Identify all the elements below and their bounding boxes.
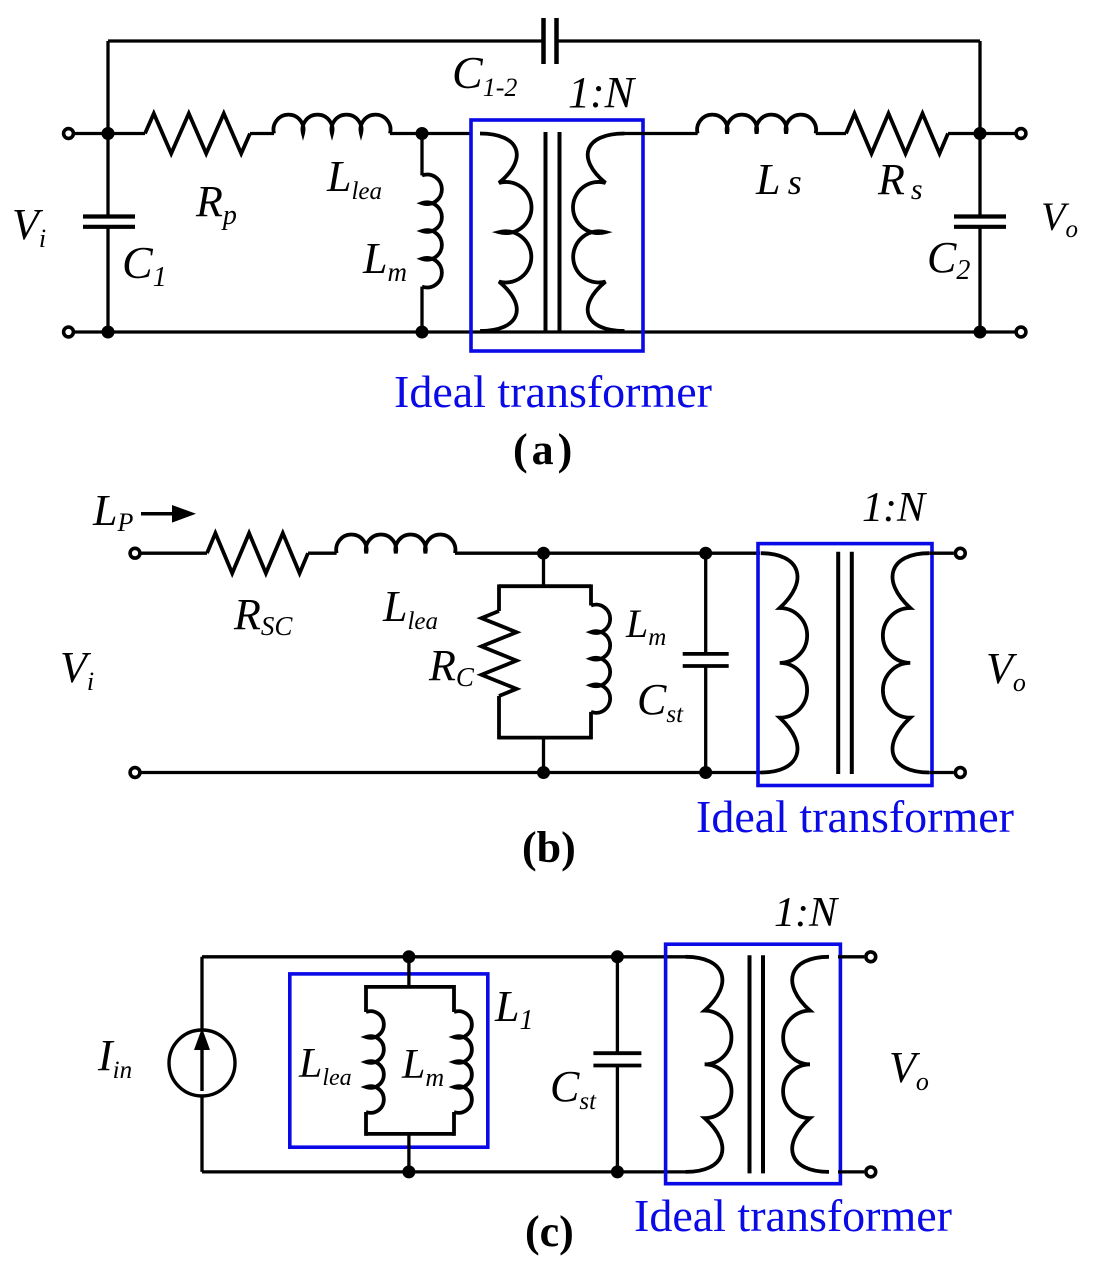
ideal transformer (b) secondary winding bbox=[883, 553, 929, 772]
svg-text:Rp: Rp bbox=[195, 177, 237, 231]
wire: (a) C2 lower stub bbox=[978, 227, 981, 332]
wire: (a) bottom rail bbox=[108, 330, 980, 333]
svg-text:Ideal transformer: Ideal transformer bbox=[696, 791, 1014, 842]
svg-text:C1-2: C1-2 bbox=[452, 47, 517, 102]
terminal: (a) input bottom bbox=[64, 327, 74, 337]
ideal transformer (a) core line 2 bbox=[558, 132, 562, 333]
ideal transformer (c) core line 2 bbox=[761, 955, 765, 1173]
wire: (b) Lm upper lead (b) bbox=[589, 584, 593, 605]
svg-text:Lm: Lm bbox=[401, 1042, 444, 1092]
svg-text:RSC: RSC bbox=[233, 590, 293, 641]
wire: (b) Rsc to Llea bbox=[308, 552, 337, 555]
inductor Llea (b) bbox=[336, 535, 455, 554]
svg-text:L1: L1 bbox=[494, 982, 533, 1036]
resistor Rc bbox=[482, 611, 517, 696]
resistor Rs bbox=[846, 114, 948, 154]
wire: (c) tank bottom stub bbox=[407, 1134, 410, 1172]
resistor Rp bbox=[145, 114, 250, 154]
svg-text:Lm: Lm bbox=[362, 234, 407, 287]
capacitor Cst (b) bbox=[683, 652, 729, 656]
terminal: (a) out bottom bbox=[1016, 327, 1026, 337]
wire: (a) Lm lower stub bbox=[420, 287, 423, 332]
node: (c) bottom node 2 bbox=[611, 1165, 624, 1178]
inductor Lm (b) bbox=[591, 605, 610, 713]
wire: (c) Llea lower lead bbox=[364, 1112, 368, 1136]
svg-text:Vo: Vo bbox=[1041, 194, 1078, 243]
svg-text:1:N: 1:N bbox=[862, 485, 927, 531]
svg-text:Iin: Iin bbox=[97, 1031, 132, 1084]
terminal: (b) input bottom bbox=[130, 768, 140, 778]
svg-text:Cst: Cst bbox=[550, 1062, 597, 1115]
terminal: (b) input top bbox=[130, 548, 140, 558]
wire: (a) Rp to Llea bbox=[250, 132, 274, 135]
svg-text:Ideal transformer: Ideal transformer bbox=[634, 1190, 952, 1241]
svg-text:Llea: Llea bbox=[298, 1041, 352, 1091]
svg-text:1:N: 1:N bbox=[774, 890, 839, 936]
svg-text:Lm: Lm bbox=[625, 601, 666, 651]
wire: (a) out bottom lead bbox=[980, 330, 1021, 333]
ideal transformer (a) core line 1 bbox=[544, 132, 548, 333]
inductor Llea (a) bbox=[274, 115, 391, 134]
wire: (b) tank top bus bbox=[499, 584, 591, 588]
wire: (c) out bottom lead bbox=[838, 1170, 864, 1173]
wire: (b) Llea to nodes bbox=[455, 552, 760, 555]
wire: (b) tank bottom stub bbox=[542, 738, 545, 773]
ideal transformer (a) secondary winding bbox=[573, 134, 625, 332]
terminal: (b) out top bbox=[955, 548, 965, 558]
wire: (a) right riser from bypass bbox=[978, 41, 981, 134]
blue box L1 bbox=[290, 974, 488, 1147]
capacitor C2 bbox=[954, 214, 1006, 218]
capacitor Cst (c) bbox=[593, 1051, 641, 1055]
ideal transformer (c) primary winding bbox=[686, 957, 732, 1172]
wire: (b) Cst upper stub bbox=[704, 553, 707, 654]
wire: (a) input top lead bbox=[69, 132, 109, 135]
wire: (c) source top lead bbox=[200, 957, 203, 1030]
wire: (c) Cst lower stub bbox=[616, 1066, 619, 1172]
wire: (a) out top lead bbox=[980, 132, 1021, 135]
wire: (b) Rc lower lead bbox=[497, 696, 501, 739]
wire: (a) top rail to Rp bbox=[108, 132, 145, 135]
svg-text:C2: C2 bbox=[927, 233, 970, 286]
resistor Rsc bbox=[207, 533, 308, 573]
ideal transformer (b) core line 1 bbox=[836, 552, 840, 774]
svg-text:(a): (a) bbox=[513, 425, 576, 474]
wire: (b) Rc upper lead bbox=[497, 584, 501, 611]
node: (b) top node 2 bbox=[699, 547, 712, 560]
wire: (c) Lm upper lead bbox=[452, 985, 456, 1012]
svg-text:LP: LP bbox=[92, 486, 133, 537]
ideal transformer (b) core line 2 bbox=[850, 552, 854, 774]
ideal transformer (c) blue box bbox=[666, 944, 841, 1183]
node: (b) bottom node 1 bbox=[537, 766, 550, 779]
wire: (b) out top lead bbox=[930, 552, 954, 555]
wire: (c) tank top bus bbox=[366, 985, 454, 989]
node: (b) top node 1 bbox=[537, 547, 550, 560]
current source arrow shaft bbox=[200, 1046, 203, 1091]
wire: (c) tank top stub bbox=[407, 957, 410, 987]
wire: (a) Rs to out node bbox=[948, 132, 980, 135]
wire: (a) Ls to Rs bbox=[816, 132, 846, 135]
svg-text:1:N: 1:N bbox=[568, 68, 637, 117]
svg-text:Vo: Vo bbox=[889, 1043, 929, 1096]
wire: (b) out bottom lead bbox=[930, 771, 954, 774]
wire: (a) C1 upper stub bbox=[106, 134, 109, 217]
wire: (b) bottom rail bbox=[135, 771, 762, 774]
terminal: (a) input top bbox=[64, 129, 74, 139]
svg-text:Cst: Cst bbox=[637, 675, 684, 728]
terminal: (a) out top bbox=[1016, 129, 1026, 139]
svg-text:Vo: Vo bbox=[986, 644, 1026, 697]
wire: (c) top rail bbox=[202, 955, 688, 958]
wire: (c) out top lead bbox=[838, 955, 864, 958]
inductor Lm (a) bbox=[422, 174, 442, 287]
capacitor C1 bbox=[83, 214, 135, 218]
capacitor C1-2 bbox=[541, 18, 546, 64]
terminal: (c) out top bbox=[866, 952, 876, 962]
wire: (a) secondary to Ls bbox=[625, 132, 698, 135]
wire: (b) tank top stub bbox=[542, 553, 545, 586]
svg-text:Vi: Vi bbox=[12, 200, 46, 253]
node: (c) top node 2 bbox=[611, 950, 624, 963]
wire: (c) tank bottom bus bbox=[366, 1132, 454, 1136]
svg-text:C1: C1 bbox=[122, 237, 167, 293]
terminal: (b) out bottom bbox=[955, 768, 965, 778]
current arrow Lp head bbox=[172, 505, 196, 523]
ideal transformer (a) blue box bbox=[471, 120, 643, 351]
inductor Lm (c) bbox=[454, 1011, 472, 1113]
svg-text:RC: RC bbox=[428, 641, 475, 692]
wire: (b) in to Rsc bbox=[141, 552, 207, 555]
svg-text:Ideal transformer: Ideal transformer bbox=[394, 366, 712, 417]
node: (c) bottom node 1 bbox=[402, 1165, 415, 1178]
wire: (c) Llea upper lead bbox=[364, 985, 368, 1012]
wire: (c) Cst upper stub bbox=[616, 957, 619, 1053]
node: (a) top-left junction bbox=[102, 127, 115, 140]
wire: (a) input bottom lead bbox=[69, 330, 109, 333]
node: (a) bottom-left junction bbox=[102, 326, 115, 339]
svg-text:Llea: Llea bbox=[326, 152, 382, 205]
wire: (a) bypass left segment bbox=[108, 39, 544, 42]
ideal transformer (c) core line 1 bbox=[748, 955, 752, 1173]
inductor Ls bbox=[697, 115, 816, 134]
svg-text:L s: L s bbox=[755, 155, 802, 204]
ideal transformer (c) secondary winding bbox=[783, 957, 829, 1172]
wire: (b) Cst lower stub bbox=[704, 666, 707, 773]
wire: (c) Lm lower lead bbox=[452, 1112, 456, 1136]
ideal transformer (b) blue box bbox=[758, 544, 932, 786]
wire: (a) Lm upper stub bbox=[420, 134, 423, 176]
node: (a) out top junction bbox=[974, 127, 987, 140]
wire: (a) C1 lower stub bbox=[106, 227, 109, 332]
current source arrow head bbox=[194, 1028, 210, 1050]
ideal transformer (a) primary winding bbox=[480, 134, 532, 332]
wire: (c) source bottom lead bbox=[200, 1096, 203, 1172]
node: (c) top node 1 bbox=[402, 950, 415, 963]
svg-text:R s: R s bbox=[877, 155, 923, 206]
terminal: (c) out bottom bbox=[866, 1167, 876, 1177]
node: (a) Lm bottom junction bbox=[416, 326, 429, 339]
node: (b) bottom node 2 bbox=[699, 766, 712, 779]
ideal transformer (b) primary winding bbox=[761, 553, 807, 772]
inductor Llea (c) bbox=[366, 1011, 384, 1113]
svg-text:(b): (b) bbox=[522, 823, 576, 872]
current source Iin bbox=[169, 1030, 235, 1096]
svg-text:Llea: Llea bbox=[382, 582, 438, 635]
wire: (a) left riser to bypass bbox=[106, 41, 109, 134]
current arrow Lp shaft bbox=[141, 512, 176, 516]
svg-text:(c): (c) bbox=[525, 1207, 574, 1256]
wire: (b) tank bottom bus bbox=[499, 736, 591, 740]
wire: (b) Lm lower lead (b) bbox=[589, 712, 593, 740]
wire: (a) Llea to node bbox=[390, 132, 471, 135]
wire: (c) bottom rail bbox=[202, 1170, 688, 1173]
node: (a) out bottom junction bbox=[974, 326, 987, 339]
wire: (a) C2 upper stub bbox=[978, 134, 981, 217]
svg-text:Vi: Vi bbox=[60, 643, 94, 696]
node: (a) Lm top junction bbox=[416, 127, 429, 140]
wire: (a) bypass right segment bbox=[557, 39, 981, 42]
